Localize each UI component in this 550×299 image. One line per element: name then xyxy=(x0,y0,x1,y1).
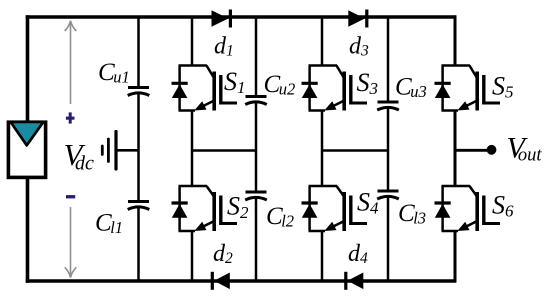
arrow Vdc span (gray) xyxy=(65,21,77,278)
wire mid rail leg4-leg5 xyxy=(322,149,388,152)
diode of S6 xyxy=(435,186,451,231)
capacitor Cl3 xyxy=(377,191,399,199)
transistor S6 (IGBT) xyxy=(442,186,501,231)
battery Vdc xyxy=(102,132,116,170)
diode of S2 xyxy=(172,186,188,231)
wire leg1 xyxy=(137,17,140,281)
wire battery to leg1 xyxy=(116,149,139,152)
wire bottom rail xyxy=(26,279,457,283)
wire left lower segment xyxy=(26,178,30,283)
label minus xyxy=(66,195,75,198)
wire left upper segment xyxy=(26,15,30,122)
wire leg2 xyxy=(191,17,194,281)
PV source xyxy=(8,122,45,177)
diode of S4 xyxy=(302,186,318,231)
transistor S3 (IGBT) xyxy=(309,66,368,111)
transistor S1 (IGBT) xyxy=(179,66,238,111)
wire leg4 xyxy=(321,17,324,281)
wire leg5 xyxy=(387,17,390,281)
transistor S2 (IGBT) xyxy=(179,186,238,231)
wire top rail xyxy=(26,15,457,19)
diode of S5 xyxy=(435,66,451,111)
node Vout xyxy=(487,145,497,155)
diode of S3 xyxy=(302,66,318,111)
capacitor Cu2 xyxy=(245,97,267,105)
diode d2 xyxy=(212,272,230,290)
capacitor Cu1 xyxy=(128,88,150,96)
capacitor Cl1 xyxy=(128,202,150,210)
transistor S5 (IGBT) xyxy=(442,66,501,111)
wire Vout lead xyxy=(455,149,487,152)
diode of S1 xyxy=(172,66,188,111)
diode d4 xyxy=(346,272,364,290)
capacitor Cl2 xyxy=(245,192,267,200)
wire right leg xyxy=(454,15,457,282)
wire leg3 xyxy=(255,17,258,281)
label plus xyxy=(66,112,75,123)
diode d1 xyxy=(212,10,231,28)
capacitor Cu3 xyxy=(377,102,399,110)
transistor S4 (IGBT) xyxy=(309,186,368,231)
wire mid rail leg2-leg3 xyxy=(192,149,256,152)
diode d3 xyxy=(348,10,367,28)
